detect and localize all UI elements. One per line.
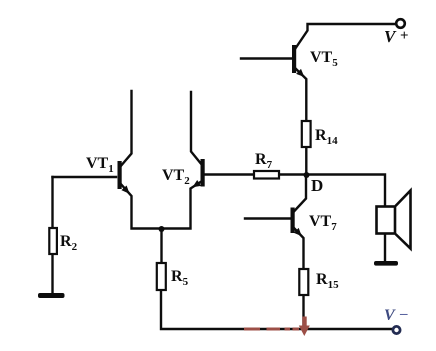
- wire VT1 collector: [120, 91, 132, 168]
- junction dot common emitters: [159, 226, 165, 232]
- wire VT7 collector to node D: [293, 176, 307, 213]
- wire VT5 collector to V+: [294, 24, 396, 51]
- wire speaker to ground: [384, 234, 386, 262]
- wire R5 bottom to V- rail: [161, 290, 393, 329]
- wire R14 bottom to node D: [305, 147, 307, 175]
- node D junction dot: [304, 172, 310, 178]
- V- terminal: [393, 326, 400, 333]
- wire VT2 base to R7: [205, 173, 255, 175]
- svg-text:–: –: [399, 306, 408, 322]
- wire VT7 emitter down to R15: [293, 227, 304, 270]
- ground (left, below R2): [38, 293, 65, 298]
- wire VT7 base stub: [245, 217, 291, 219]
- transistor VT7: [291, 208, 302, 237]
- svg-text:R14: R14: [315, 127, 338, 147]
- svg-text:R15: R15: [316, 271, 339, 291]
- red watermark dashes on V- rail: [244, 328, 299, 331]
- svg-text:VT5: VT5: [310, 49, 338, 69]
- svg-text:D: D: [311, 176, 323, 195]
- red watermark arrow at R15/rail junction: [299, 317, 310, 337]
- resistor R15: [299, 269, 308, 295]
- svg-text:VT1: VT1: [86, 155, 114, 175]
- transistor VT5: [292, 45, 304, 77]
- speaker LS: [377, 191, 411, 249]
- wire R15 bottom to V- rail: [302, 295, 304, 328]
- wire node D to speaker: [307, 175, 386, 207]
- resistor R14: [302, 121, 311, 147]
- svg-text:VT2: VT2: [162, 167, 190, 187]
- wire VT1 base down to R2: [51, 177, 53, 228]
- svg-text:R2: R2: [60, 233, 78, 253]
- svg-text:V: V: [384, 307, 396, 324]
- svg-text:VT7: VT7: [309, 213, 337, 233]
- svg-text:R5: R5: [171, 268, 189, 288]
- transistor VT1: [118, 161, 130, 194]
- ground (below speaker): [374, 261, 398, 266]
- wire common emitter node down to R5: [160, 230, 162, 264]
- V+ terminal: [396, 19, 405, 28]
- wire VT1 emitter to common node: [120, 181, 203, 229]
- wire VT5 emitter down to R14: [294, 67, 306, 121]
- resistor R2: [49, 228, 57, 254]
- wire VT1 base horizontal: [53, 176, 117, 178]
- svg-text:+: +: [400, 28, 409, 44]
- wire R7 to node D: [279, 173, 307, 175]
- transistor VT2: [192, 159, 204, 187]
- svg-text:V: V: [384, 27, 397, 46]
- wire VT2 collector: [191, 92, 202, 165]
- resistor R5: [157, 263, 166, 290]
- resistor R7: [254, 171, 279, 179]
- wire VT5 base stub: [241, 57, 292, 59]
- wire R2 bottom to ground: [51, 254, 53, 293]
- svg-text:R7: R7: [255, 151, 273, 171]
